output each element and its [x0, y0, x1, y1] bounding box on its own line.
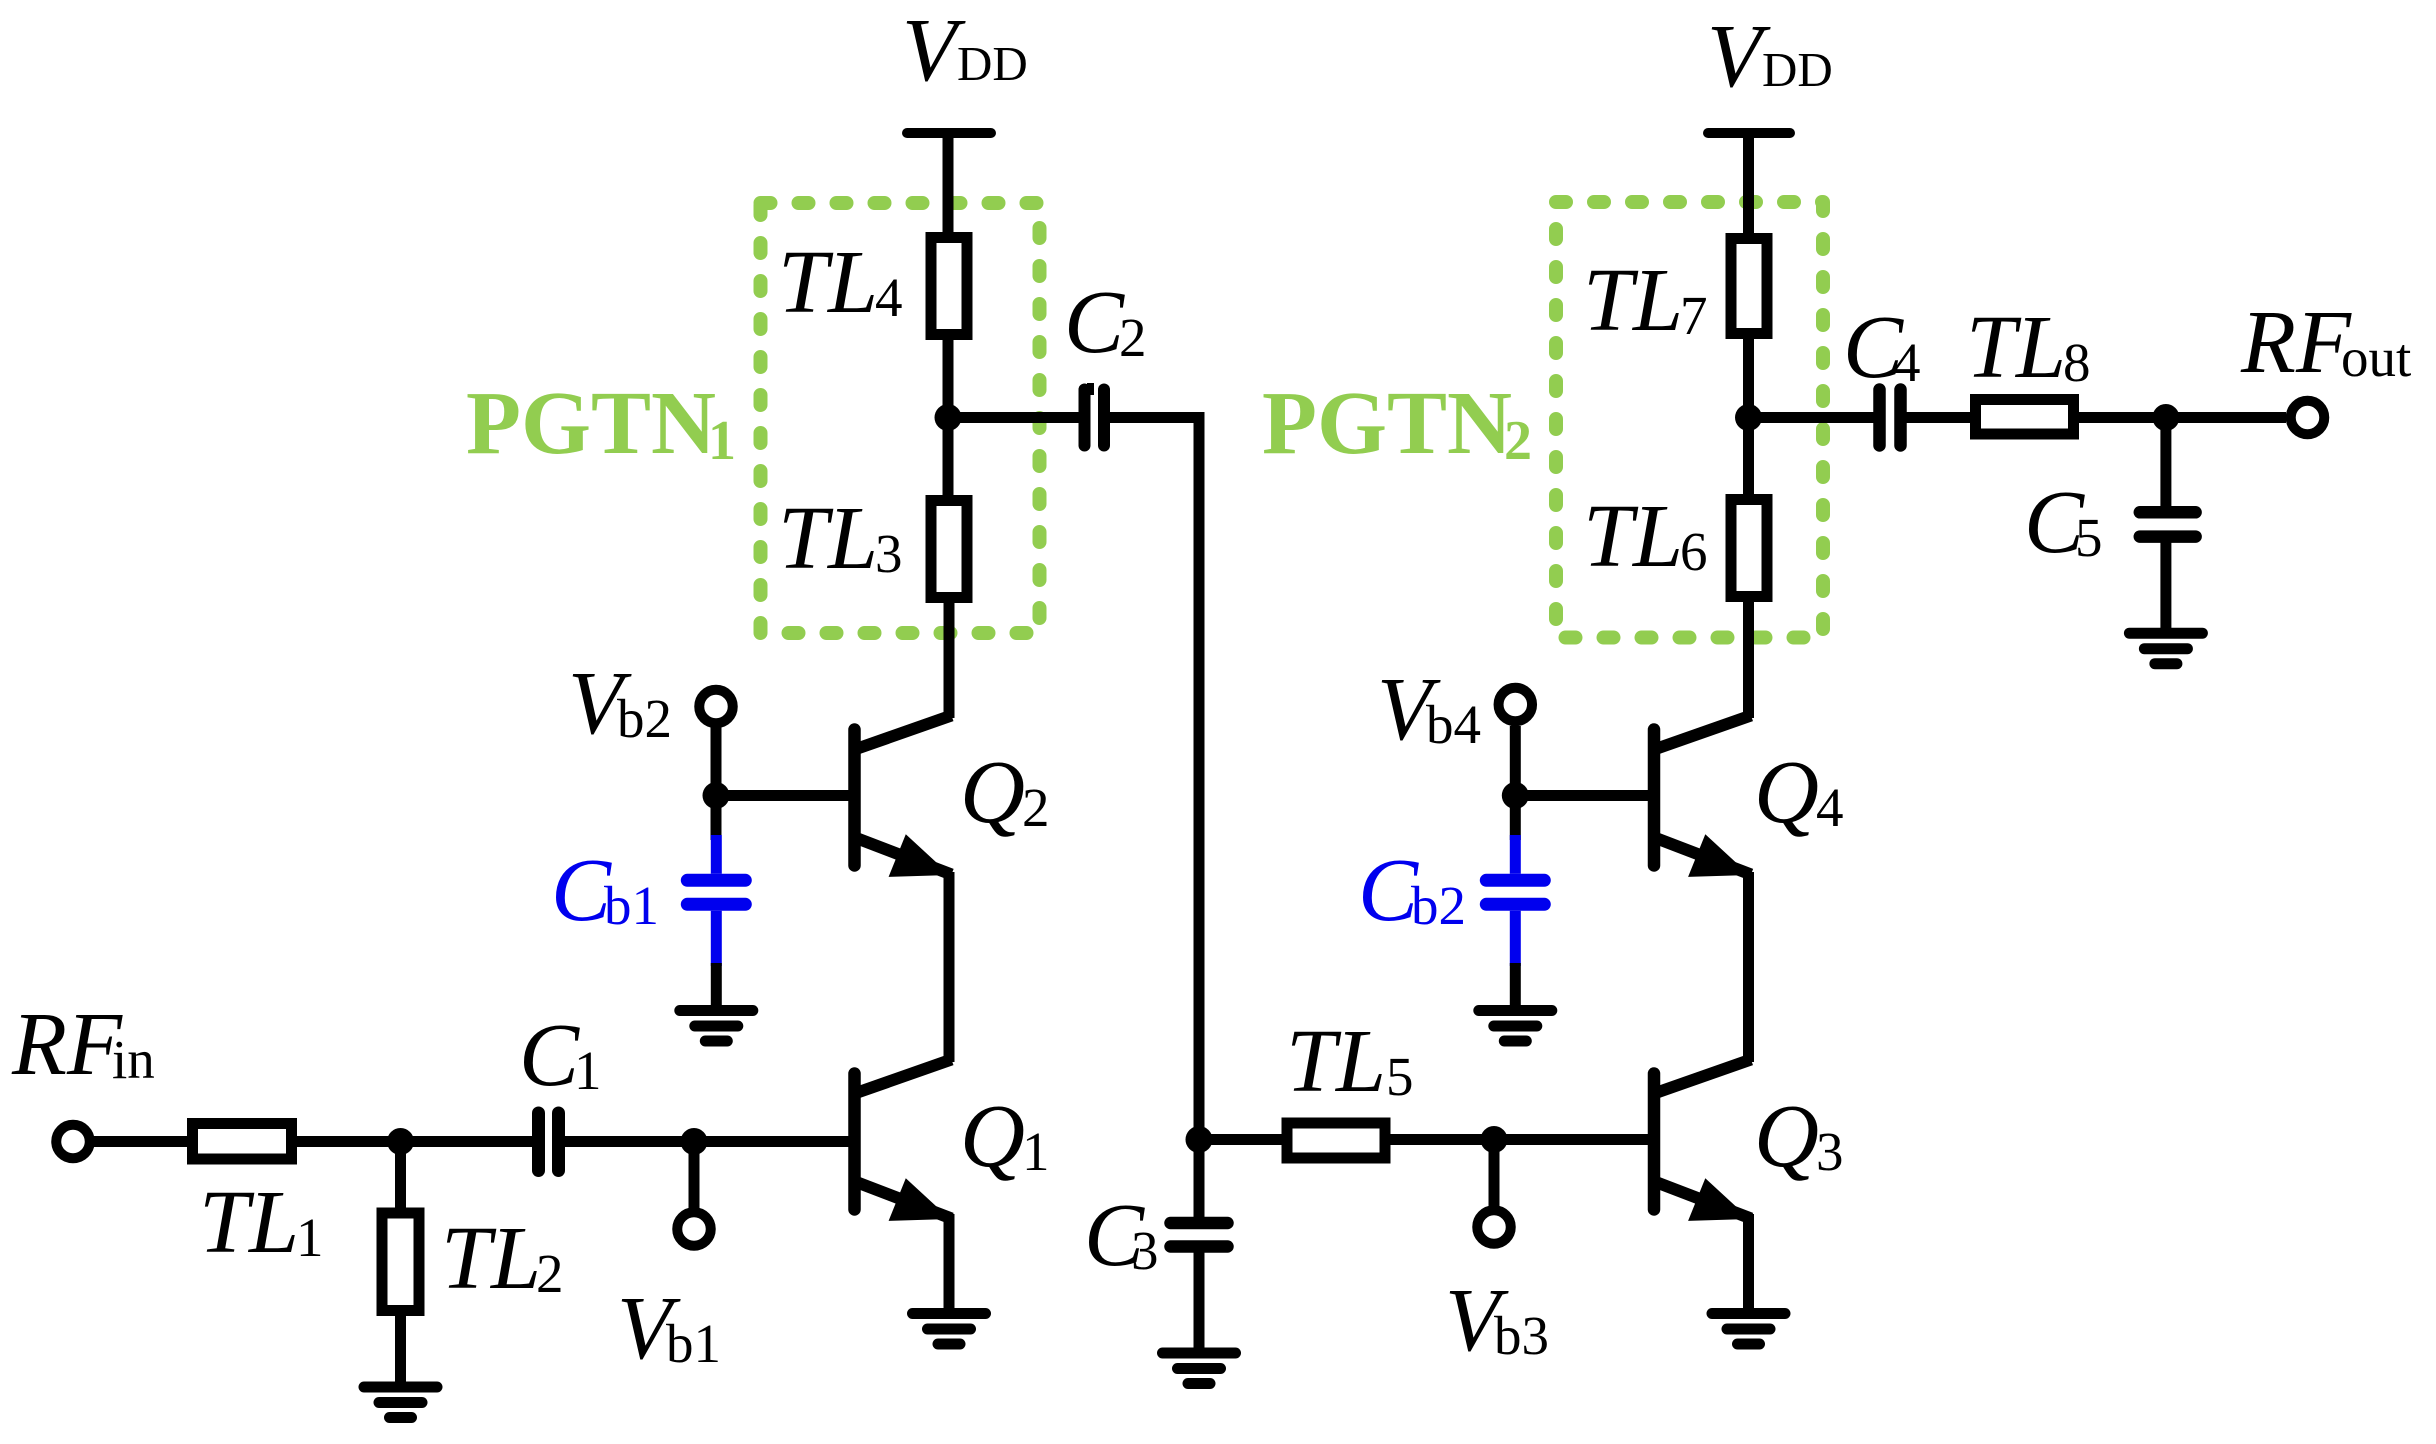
- wire Vb4 port to node: [1510, 726, 1521, 796]
- svg-text:b4: b4: [1426, 694, 1481, 755]
- svg-text:3: 3: [875, 523, 903, 584]
- wire node A down to TL2: [395, 1142, 406, 1214]
- capacitor Cb1 (blue): [551, 835, 745, 966]
- wire node B to C2: [948, 412, 1080, 423]
- PGTN2 dashed box: [1556, 202, 1823, 638]
- svg-text:Q: Q: [960, 1087, 1025, 1186]
- svg-text:b1: b1: [604, 875, 659, 936]
- svg-text:2: 2: [1119, 307, 1147, 368]
- wire node to Vb3 port: [1489, 1140, 1500, 1207]
- transistor Q2: [855, 716, 1050, 877]
- wire node down to Cb1 (black stub): [711, 796, 722, 841]
- svg-text:C: C: [1064, 273, 1125, 372]
- svg-text:6: 6: [1680, 521, 1708, 582]
- node A junction: [387, 1128, 414, 1155]
- wire TL4 to VDD: [943, 133, 954, 240]
- wire node D to C4: [1749, 412, 1876, 423]
- svg-text:TL: TL: [1966, 298, 2066, 397]
- wire node C down to C3: [1194, 1140, 1205, 1219]
- svg-text:5: 5: [1386, 1046, 1414, 1107]
- svg-text:TL: TL: [199, 1173, 299, 1272]
- wire Q3 collector to Q4 emitter: [1743, 872, 1754, 1062]
- svg-text:DD: DD: [957, 36, 1028, 91]
- node Vb3 junction: [1481, 1126, 1508, 1153]
- node Vb1 junction: [681, 1128, 708, 1155]
- svg-text:TL: TL: [441, 1209, 541, 1308]
- wire TL2 to ground: [395, 1311, 406, 1388]
- wire Vb2 port to node: [711, 727, 722, 796]
- svg-text:out: out: [2341, 327, 2411, 388]
- ground below C5: [2129, 633, 2202, 664]
- wire Q4 base to node: [1515, 790, 1650, 801]
- PGTN1 label: [466, 374, 736, 473]
- wire TL8 to RF_out port: [2073, 412, 2286, 423]
- transmission line TL7: [1583, 239, 1767, 351]
- svg-text:DD: DD: [1762, 42, 1833, 97]
- transmission line TL5: [1286, 1012, 1414, 1158]
- svg-text:5: 5: [2075, 507, 2103, 568]
- wire TL3 to node B: [943, 418, 954, 499]
- node D junction: [1735, 404, 1762, 431]
- transmission line TL8: [1966, 298, 2091, 434]
- ground below Cb2: [1479, 1011, 1552, 1042]
- svg-text:C: C: [551, 841, 612, 940]
- wire node A to C1: [401, 1136, 534, 1147]
- wire TL1 to node A: [292, 1136, 401, 1147]
- wire C4 to TL8: [1906, 412, 1975, 423]
- PGTN1 dashed box: [761, 203, 1040, 633]
- svg-text:b2: b2: [617, 688, 672, 749]
- capacitor C5: [2024, 473, 2196, 572]
- svg-text:RF: RF: [11, 995, 123, 1094]
- port Vb4: [1377, 660, 1532, 759]
- transmission line TL2: [382, 1209, 564, 1311]
- wire C1 to Q1 base: [564, 1136, 850, 1147]
- ground below Q1: [913, 1314, 986, 1345]
- svg-text:TL: TL: [778, 489, 878, 588]
- wire C3 to ground: [1194, 1252, 1205, 1353]
- wire Cb2 to ground: [1510, 963, 1521, 1011]
- wire node E down to C5: [2160, 418, 2171, 509]
- svg-text:TL: TL: [1583, 487, 1683, 586]
- wire C5 to ground: [2160, 542, 2171, 633]
- svg-text:Q: Q: [1754, 1087, 1819, 1186]
- svg-text:4: 4: [1893, 332, 1921, 393]
- wire node down to Cb2 (black stub): [1510, 796, 1521, 841]
- wire Cb1 to ground: [711, 963, 722, 1011]
- wire node to Vb1 port: [689, 1142, 700, 1209]
- wire Q2 collector to TL3: [944, 600, 955, 718]
- port Vb2: [568, 654, 733, 753]
- node Vb2 junction: [703, 782, 730, 809]
- capacitor C3: [1084, 1186, 1228, 1285]
- svg-text:TL: TL: [1286, 1012, 1386, 1111]
- svg-text:8: 8: [2063, 332, 2091, 393]
- wire node D to TL7: [1743, 336, 1754, 418]
- node B junction: [935, 404, 962, 431]
- svg-text:3: 3: [1816, 1121, 1844, 1182]
- svg-text:TL: TL: [778, 233, 878, 332]
- wire node B to TL4: [943, 337, 954, 418]
- svg-text:PGTN: PGTN: [466, 374, 716, 473]
- wire node C to TL5: [1199, 1134, 1287, 1145]
- power VDD left: [902, 1, 1028, 133]
- power VDD right: [1707, 7, 1833, 133]
- ground below C3: [1163, 1353, 1236, 1384]
- ground below TL2: [364, 1387, 437, 1418]
- svg-text:4: 4: [875, 267, 903, 328]
- svg-text:C: C: [1358, 841, 1419, 940]
- svg-text:1: 1: [574, 1040, 602, 1101]
- node E junction: [2152, 404, 2179, 431]
- svg-text:2: 2: [1022, 777, 1050, 838]
- transistor Q4: [1654, 716, 1844, 877]
- wire C2 to C3 node (corner): [1109, 418, 1199, 1140]
- port Vb1: [617, 1212, 721, 1378]
- svg-text:1: 1: [296, 1207, 324, 1268]
- wire Q3 emitter to ground: [1743, 1214, 1754, 1314]
- svg-text:TL: TL: [1583, 251, 1683, 350]
- capacitor C4: [1843, 298, 1921, 446]
- transmission line TL3: [778, 489, 967, 598]
- wire Q2 base to node: [716, 790, 851, 801]
- capacitor C1: [519, 1006, 602, 1171]
- capacitor Cb2 (blue): [1358, 835, 1544, 966]
- capacitor C2: [1064, 273, 1147, 446]
- transmission line TL6: [1583, 487, 1767, 597]
- svg-text:4: 4: [1816, 777, 1844, 838]
- wire TL5 to Q3 base: [1385, 1134, 1650, 1145]
- node Vb4 junction: [1502, 782, 1529, 809]
- port RF_out: [2240, 293, 2411, 434]
- svg-text:b2: b2: [1411, 875, 1466, 936]
- wire Q1 emitter to ground: [944, 1214, 955, 1314]
- svg-text:7: 7: [1680, 285, 1708, 346]
- wire TL7 to VDD: [1743, 133, 1754, 241]
- transistor Q1: [855, 1060, 1050, 1221]
- svg-text:3: 3: [1131, 1220, 1159, 1281]
- svg-text:PGTN: PGTN: [1262, 374, 1512, 473]
- wire TL6 to node D: [1743, 418, 1754, 498]
- wire RFin to TL1: [94, 1136, 192, 1147]
- PGTN2 label: [1262, 374, 1532, 473]
- node C junction: [1186, 1126, 1213, 1153]
- svg-text:b1: b1: [666, 1313, 721, 1374]
- wire Q1 collector to Q2 emitter: [944, 872, 955, 1062]
- port RF_in: [11, 995, 155, 1158]
- svg-text:b3: b3: [1494, 1305, 1549, 1366]
- svg-text:Q: Q: [1754, 743, 1819, 842]
- wire Q4 collector to TL6: [1743, 599, 1754, 718]
- port Vb3: [1445, 1210, 1549, 1370]
- svg-text:1: 1: [1022, 1121, 1050, 1182]
- ground below Cb1: [680, 1011, 753, 1042]
- svg-text:C: C: [519, 1006, 580, 1105]
- transmission line TL1: [193, 1124, 324, 1273]
- svg-text:2: 2: [536, 1243, 564, 1304]
- ground below Q3: [1712, 1314, 1785, 1345]
- svg-text:Q: Q: [960, 743, 1025, 842]
- transistor Q3: [1654, 1060, 1844, 1221]
- svg-text:1: 1: [708, 410, 736, 472]
- svg-text:2: 2: [1504, 410, 1532, 472]
- transmission line TL4: [778, 233, 967, 335]
- svg-text:RF: RF: [2240, 293, 2352, 392]
- svg-text:in: in: [112, 1029, 155, 1090]
